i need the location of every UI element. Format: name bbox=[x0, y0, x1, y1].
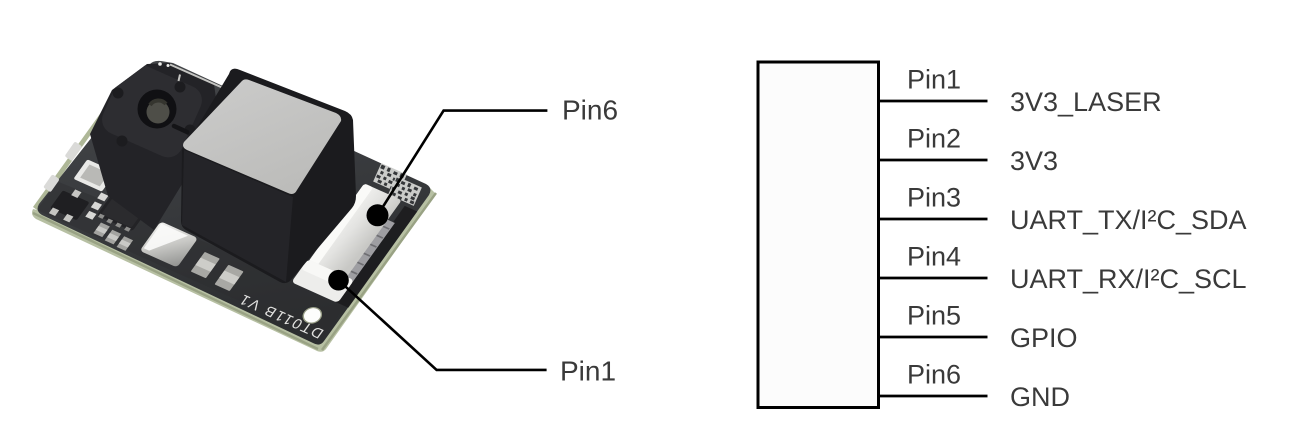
screw bump bottom-right bbox=[185, 125, 196, 136]
sensor cube U1 left face (slightly lighter) bbox=[182, 150, 293, 282]
pin1 marker dot on connector bbox=[328, 270, 349, 291]
svg-text:Pin1: Pin1 bbox=[907, 65, 961, 95]
PCB board top face (black soldermask) bbox=[38, 61, 431, 345]
svg-text:UART_RX/I²C_SCL: UART_RX/I²C_SCL bbox=[1010, 264, 1247, 294]
leader wire to Pin1 label bbox=[339, 280, 547, 370]
svg-text:3V3_LASER: 3V3_LASER bbox=[1010, 87, 1162, 117]
inductor L1 (white body component) bbox=[73, 159, 116, 191]
svg-text:Pin6: Pin6 bbox=[907, 360, 961, 390]
pin 6 wire bbox=[879, 395, 988, 398]
board bottom area slightly darker band bbox=[37, 173, 348, 338]
capacitor cluster C1-C3 (small pads) bbox=[97, 193, 108, 202]
castellated pad (left edge, upper) bbox=[65, 141, 83, 161]
components in board-local coordinates bbox=[35, 79, 420, 343]
PCB green substrate side (left edge) bbox=[33, 86, 124, 210]
svg-text:GND: GND bbox=[1010, 382, 1070, 412]
connector body rectangle bbox=[758, 62, 879, 408]
FPC connector J1 shadow bbox=[336, 206, 417, 308]
crystal Y1 (shiny metal can) bbox=[140, 221, 198, 267]
capacitor C7 bbox=[191, 252, 220, 278]
glint line on far board edge bbox=[170, 65, 222, 88]
capacitors C4 C5 C6 (gray bodies, bottom row) bbox=[92, 223, 135, 251]
svg-text:Pin3: Pin3 bbox=[907, 183, 961, 213]
pin 2 wire bbox=[879, 159, 988, 162]
FPC connector J1 white body bbox=[294, 183, 401, 298]
svg-text:Pin1: Pin1 bbox=[560, 356, 616, 387]
shadow wedge right of laser block (lower) bbox=[188, 173, 208, 181]
pin 5 wire bbox=[879, 336, 988, 339]
FPC connector J1 latch (pin1 end flap) bbox=[291, 259, 354, 303]
PCB substrate outer dark rim bbox=[33, 193, 436, 350]
screw bump top-right bbox=[175, 82, 186, 93]
shadow wedge right of laser block (upper) bbox=[174, 126, 187, 132]
svg-text:Pin4: Pin4 bbox=[907, 242, 961, 272]
svg-text:Pin5: Pin5 bbox=[907, 301, 961, 331]
pin 1 wire bbox=[879, 100, 988, 103]
screw bump top-left bbox=[113, 88, 124, 99]
IC U2 (regulator, black body) bbox=[97, 189, 151, 231]
laser aperture (dark ring + lens) bbox=[138, 90, 177, 129]
svg-text:GPIO: GPIO bbox=[1010, 323, 1078, 353]
FPC connector J1 contact teeth strip bbox=[329, 218, 395, 300]
PCB green substrate side (bottom edges) bbox=[32, 188, 436, 352]
sensor cube U1 body (full silhouette, dark case) bbox=[181, 69, 356, 283]
pin 4 wire bbox=[879, 277, 988, 280]
svg-text:Pin6: Pin6 bbox=[562, 95, 618, 126]
sensor cube U1 gray top face bbox=[183, 79, 341, 194]
transistor Q1 (SOT-23 black body with silver legs) bbox=[50, 190, 90, 220]
laser emitter front plate bbox=[97, 58, 206, 162]
castellated pad (left edge, lower) bbox=[43, 174, 60, 192]
datamatrix code label (upper, near board edge) bbox=[373, 163, 407, 193]
laser emitter block (black module, top-left) bbox=[90, 63, 220, 230]
screw bump bottom-left bbox=[117, 136, 128, 147]
mounting hole (bottom right corner) bbox=[300, 305, 325, 326]
pin 3 wire bbox=[879, 218, 988, 221]
leader wire to Pin6 label bbox=[378, 111, 548, 216]
datamatrix code label (lower) bbox=[388, 176, 422, 206]
svg-text:UART_TX/I²C_SDA: UART_TX/I²C_SDA bbox=[1010, 205, 1247, 235]
capacitor C8 bbox=[214, 265, 243, 291]
pin6 marker dot on connector bbox=[367, 204, 389, 226]
svg-text:3V3: 3V3 bbox=[1010, 146, 1058, 176]
svg-text:Pin2: Pin2 bbox=[907, 124, 961, 154]
